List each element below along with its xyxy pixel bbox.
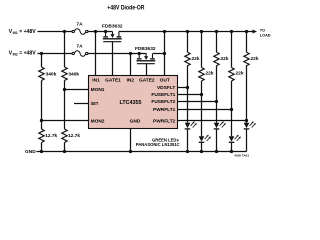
svg-text:MON1: MON1: [91, 87, 105, 93]
svg-text:VDSFLT: VDSFLT: [157, 85, 175, 91]
svg-text:FDB3632: FDB3632: [102, 24, 123, 30]
svg-text:= +48V: = +48V: [19, 29, 36, 35]
svg-text:GND: GND: [130, 118, 141, 124]
svg-text:22k: 22k: [221, 56, 229, 62]
svg-text:IN1: IN1: [13, 31, 18, 35]
svg-text:IN1: IN1: [92, 77, 100, 83]
svg-text:TO: TO: [260, 29, 265, 33]
svg-text:12.7k: 12.7k: [68, 133, 80, 139]
svg-text:340k: 340k: [46, 72, 57, 78]
svg-text:FDB3632: FDB3632: [135, 46, 156, 52]
svg-text:MON2: MON2: [91, 118, 105, 124]
svg-text:LOAD: LOAD: [260, 34, 271, 38]
svg-text:GND: GND: [25, 149, 36, 155]
svg-text:7A: 7A: [76, 44, 83, 50]
svg-text:FUSEFLT2: FUSEFLT2: [151, 99, 175, 105]
svg-text:7A: 7A: [76, 21, 83, 27]
svg-text:OUT: OUT: [160, 77, 170, 83]
svg-text:FUSEFLT1: FUSEFLT1: [151, 92, 175, 98]
svg-text:PWRFLT1: PWRFLT1: [153, 107, 176, 113]
svg-text:SET: SET: [91, 101, 99, 107]
svg-text:22k: 22k: [236, 70, 244, 76]
svg-text:4355 TA01: 4355 TA01: [234, 153, 249, 157]
svg-text:IN2: IN2: [13, 53, 18, 57]
svg-text:GATE2: GATE2: [139, 77, 155, 83]
svg-text:22k: 22k: [206, 70, 214, 76]
svg-text:= +48V: = +48V: [19, 50, 36, 56]
svg-text:IN2: IN2: [127, 77, 135, 83]
svg-text:22k: 22k: [251, 56, 259, 62]
svg-text:340k: 340k: [68, 72, 79, 78]
svg-text:LTC4355: LTC4355: [119, 100, 141, 106]
svg-text:+48V Diode-OR: +48V Diode-OR: [107, 5, 144, 12]
svg-text:PANASONIC LN1351C: PANASONIC LN1351C: [136, 142, 180, 147]
svg-text:PWRFLT2: PWRFLT2: [153, 118, 176, 124]
svg-text:12.7k: 12.7k: [45, 133, 57, 139]
svg-text:22k: 22k: [192, 56, 200, 62]
svg-text:GATE1: GATE1: [105, 77, 121, 83]
